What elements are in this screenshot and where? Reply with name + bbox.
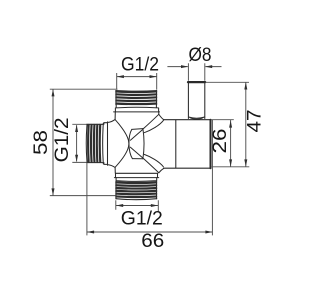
dim diam8: line right segment: [205, 66, 221, 68]
bottom port thread sides: [116, 181, 157, 199]
x-curve bottom-right outer: [143, 158, 159, 172]
bottom thread bands: [115, 182, 157, 197]
svg-text:G1/2: G1/2: [121, 55, 159, 76]
cone left arc: [129, 129, 132, 158]
dim diam8: extension lines: [188, 63, 204, 80]
x-curve top-right inner: [144, 120, 163, 132]
top-left shoulder stem: [114, 112, 116, 120]
tube top (thick): [188, 81, 205, 83]
right section top edge: [164, 119, 210, 121]
arrows 66: [87, 231, 94, 234]
dim G1/2 left: extension lines: [72, 124, 86, 162]
svg-text:Ø8: Ø8: [189, 45, 212, 66]
dim 26/47 shared bottom extension: [212, 166, 250, 168]
cone fan line upper: [130, 130, 142, 141]
bottom port thread end curve: [116, 199, 157, 200]
cone base arc: [143, 129, 144, 159]
right section bottom edge: [164, 167, 210, 169]
dim 66: extension lines: [87, 120, 212, 235]
dim 47: top extension: [205, 81, 249, 83]
svg-text:G1/2: G1/2: [121, 209, 163, 230]
center bow curve: [115, 120, 129, 168]
svg-text:26: 26: [210, 129, 231, 154]
dim G1/2 bottom: extension lines: [116, 200, 159, 212]
left port thread edges: [87, 124, 104, 162]
top thread bands: [115, 91, 157, 104]
dim 26: top extension: [211, 119, 234, 121]
dim diam8: line left segment: [167, 66, 187, 68]
arrows 47: [244, 82, 247, 89]
fillet bottom-right: [159, 168, 164, 173]
arrows G1/2 left: [75, 125, 78, 132]
fillet bottom-left: [107, 165, 115, 168]
left port thread end curve: [85, 125, 88, 162]
dim 47: line: [245, 82, 247, 167]
svg-text:58: 58: [31, 130, 52, 155]
right section face (thick): [210, 120, 212, 169]
svg-text:47: 47: [244, 110, 265, 133]
bottom-left shoulder stem: [114, 168, 116, 174]
dimension lines: [50, 63, 250, 235]
left thread bands: [88, 124, 100, 163]
arrows G1/2 top: [117, 75, 124, 78]
dim 58: extension lines: [50, 89, 118, 195]
tube base rim (dark crescent): [189, 117, 205, 120]
svg-text:66: 66: [141, 231, 164, 252]
top port thread chamfer ring: [116, 105, 157, 108]
dim G1/2 top: extension lines: [117, 73, 157, 90]
arrows 26: [229, 120, 232, 127]
top port thread sides: [116, 90, 157, 104]
arrowheads: [52, 65, 248, 233]
svg-text:G1/2: G1/2: [52, 117, 73, 162]
arrows G1/2 bottom: [116, 204, 123, 207]
top-right shoulder stem: [158, 112, 160, 114]
dim 26: line: [230, 120, 232, 167]
dim G1/2 left: line: [76, 125, 78, 161]
cone bottom edge: [132, 158, 143, 160]
fillet top-right: [159, 114, 164, 119]
dim 58: line: [52, 89, 54, 195]
dim G1/2 top: line: [117, 76, 157, 78]
left port collar: [104, 122, 108, 165]
x-curve top-right outer: [143, 114, 159, 128]
left port thread chamfer ring: [102, 123, 105, 163]
top port collar: [114, 108, 160, 112]
bottom port thread chamfer ring: [116, 178, 157, 182]
cone fan line lower: [130, 147, 142, 158]
bottom port collar: [114, 173, 158, 177]
tube sides: [188, 83, 204, 119]
dim 66: line: [87, 231, 213, 233]
dim G1/2 bottom: line: [116, 205, 158, 207]
fillet top-left: [107, 119, 115, 122]
arrows diam8: [181, 65, 188, 68]
x-curve bottom-right inner: [144, 154, 163, 166]
arrows 58: [52, 89, 55, 96]
cone top edge: [132, 128, 143, 131]
right section divider: [175, 120, 177, 168]
